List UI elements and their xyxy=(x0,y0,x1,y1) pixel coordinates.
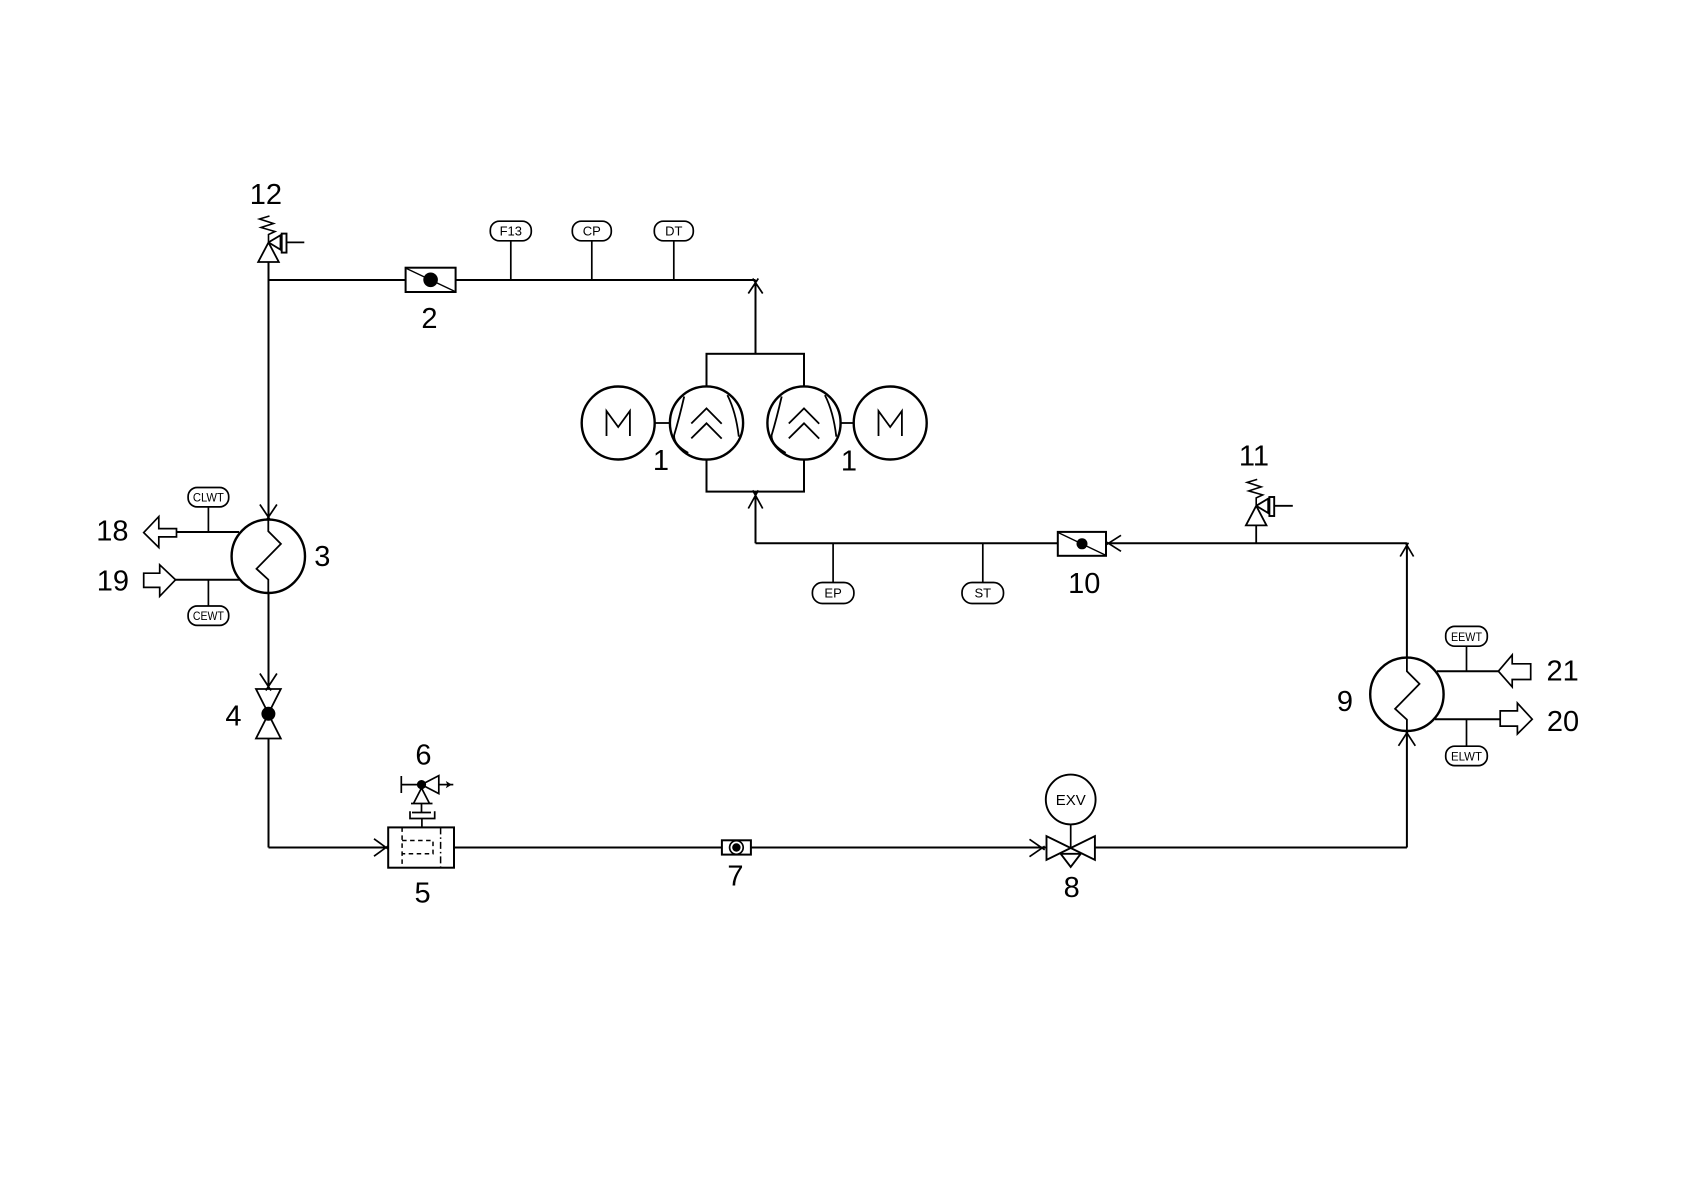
svg-text:19: 19 xyxy=(97,566,129,598)
svg-text:ELWT: ELWT xyxy=(1451,749,1482,763)
svg-text:2: 2 xyxy=(421,303,437,335)
svg-text:CEWT: CEWT xyxy=(193,609,224,623)
svg-text:CLWT: CLWT xyxy=(193,491,224,505)
svg-text:9: 9 xyxy=(1337,686,1353,718)
svg-text:21: 21 xyxy=(1546,656,1578,688)
svg-text:4: 4 xyxy=(225,701,241,733)
svg-text:EP: EP xyxy=(824,586,841,601)
svg-text:1: 1 xyxy=(653,445,669,477)
svg-text:7: 7 xyxy=(727,861,743,893)
svg-text:6: 6 xyxy=(415,740,431,772)
svg-text:8: 8 xyxy=(1064,872,1080,904)
svg-text:EEWT: EEWT xyxy=(1451,630,1482,644)
svg-text:CP: CP xyxy=(583,224,601,239)
svg-text:12: 12 xyxy=(250,179,282,211)
svg-text:10: 10 xyxy=(1068,568,1100,600)
svg-text:3: 3 xyxy=(314,541,330,573)
svg-text:20: 20 xyxy=(1547,706,1579,738)
svg-text:1: 1 xyxy=(841,446,857,478)
svg-text:F13: F13 xyxy=(500,224,522,239)
svg-text:EXV: EXV xyxy=(1056,792,1086,809)
svg-text:11: 11 xyxy=(1239,441,1269,473)
svg-text:DT: DT xyxy=(665,224,682,239)
svg-text:ST: ST xyxy=(974,586,991,601)
svg-text:18: 18 xyxy=(96,516,128,548)
svg-text:5: 5 xyxy=(415,878,431,910)
